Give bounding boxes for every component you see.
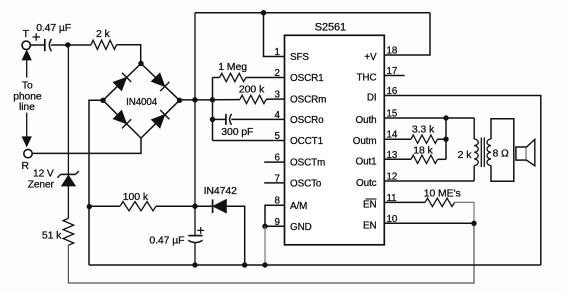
svg-text:0.47 µF: 0.47 µF	[149, 234, 184, 246]
svg-text:1: 1	[274, 47, 279, 58]
svg-text:GND: GND	[290, 222, 312, 233]
svg-text:6: 6	[274, 153, 280, 164]
svg-text:4: 4	[274, 110, 280, 121]
svg-text:8: 8	[274, 196, 280, 207]
svg-text:SFS: SFS	[290, 52, 309, 63]
svg-text:+V: +V	[364, 52, 377, 63]
svg-text:OSCRm: OSCRm	[290, 95, 326, 106]
svg-text:9: 9	[274, 217, 279, 228]
svg-text:IN4742: IN4742	[204, 185, 238, 197]
svg-text:To: To	[22, 80, 33, 91]
svg-text:18 k: 18 k	[413, 145, 433, 157]
svg-text:Outm: Outm	[353, 136, 377, 147]
svg-text:3: 3	[274, 90, 280, 101]
svg-text:line: line	[19, 102, 35, 113]
svg-text:OSCR1: OSCR1	[290, 73, 324, 84]
svg-text:R: R	[21, 160, 29, 172]
svg-text:EN: EN	[363, 220, 377, 231]
svg-text:200 k: 200 k	[239, 84, 265, 96]
svg-text:2 k: 2 k	[96, 28, 111, 40]
svg-text:5: 5	[274, 131, 280, 142]
svg-text:Outc: Outc	[356, 178, 377, 189]
svg-text:EN: EN	[363, 199, 377, 210]
svg-text:IN4004: IN4004	[126, 97, 158, 108]
svg-text:8 Ω: 8 Ω	[492, 148, 509, 160]
svg-text:OSCTm: OSCTm	[290, 158, 325, 169]
svg-text:Out1: Out1	[355, 156, 377, 167]
svg-text:51 k: 51 k	[42, 230, 62, 242]
svg-text:DI: DI	[367, 93, 377, 104]
svg-text:T: T	[23, 28, 30, 40]
svg-text:phone: phone	[13, 91, 42, 102]
svg-text:7: 7	[274, 173, 279, 184]
svg-text:300 pF: 300 pF	[221, 126, 253, 138]
svg-text:S2561: S2561	[315, 21, 346, 33]
svg-text:OSCTo: OSCTo	[290, 179, 322, 190]
svg-text:A/M: A/M	[290, 201, 307, 212]
svg-text:2 k: 2 k	[458, 149, 473, 161]
svg-text:12 V: 12 V	[33, 169, 54, 180]
svg-text:OCCT1: OCCT1	[290, 136, 324, 147]
svg-text:Zener: Zener	[28, 179, 55, 190]
svg-text:Outh: Outh	[355, 115, 376, 126]
svg-text:3.3 k: 3.3 k	[412, 123, 435, 135]
svg-text:10 ME's: 10 ME's	[424, 187, 461, 199]
svg-text:100 k: 100 k	[123, 191, 149, 203]
svg-text:0.47 µF: 0.47 µF	[36, 23, 71, 34]
svg-text:OSCRo: OSCRo	[290, 115, 324, 126]
svg-text:THC: THC	[357, 73, 377, 84]
svg-text:2: 2	[274, 68, 279, 79]
svg-text:1 Meg: 1 Meg	[218, 61, 247, 73]
svg-text:18: 18	[387, 46, 398, 57]
